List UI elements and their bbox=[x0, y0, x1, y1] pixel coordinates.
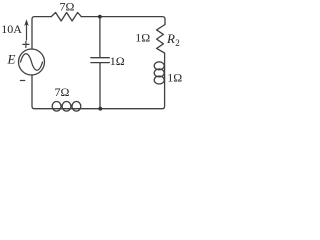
svg-text:1Ω: 1Ω bbox=[110, 54, 125, 68]
svg-text:7Ω: 7Ω bbox=[60, 0, 75, 14]
svg-text:1Ω: 1Ω bbox=[135, 31, 150, 45]
svg-text:7Ω: 7Ω bbox=[55, 85, 70, 99]
svg-text:10A: 10A bbox=[1, 22, 22, 36]
svg-text:1Ω: 1Ω bbox=[167, 71, 182, 85]
svg-text:R: R bbox=[166, 31, 175, 46]
svg-text:E: E bbox=[7, 52, 16, 67]
svg-text:2: 2 bbox=[175, 38, 180, 48]
